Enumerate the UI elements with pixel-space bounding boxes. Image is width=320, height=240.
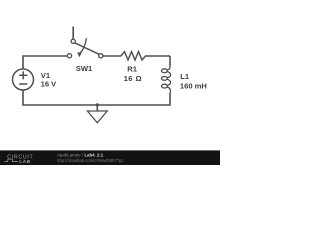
svg-text:16 V: 16 V [41, 80, 58, 89]
svg-text:LAB: LAB [19, 159, 31, 165]
svg-text:ApahLanote / Lab4_2.1: ApahLanote / Lab4_2.1 [57, 152, 104, 157]
svg-text:16 Ω: 16 Ω [124, 74, 142, 83]
svg-text:SW1: SW1 [76, 64, 93, 73]
svg-text:160 mH: 160 mH [180, 82, 207, 91]
svg-text:http://circuitlab.com/c/9nw4b5: http://circuitlab.com/c/9nw4b5h77gc [57, 158, 124, 163]
svg-text:L1: L1 [180, 72, 190, 81]
svg-text:V1: V1 [41, 71, 51, 80]
svg-text:R1: R1 [127, 65, 137, 74]
